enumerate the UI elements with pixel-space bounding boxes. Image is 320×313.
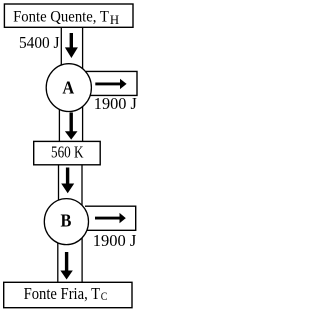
arrow from A to intermediate reservoir (65, 113, 78, 140)
svg-text:H: H (110, 13, 119, 27)
svg-text:5400 J: 5400 J (19, 33, 60, 52)
arrow into engine B (61, 168, 74, 194)
work output box B (85, 206, 136, 230)
cold reservoir box (4, 282, 132, 307)
intermediate reservoir box 560 K (34, 141, 101, 164)
engine A circle (46, 64, 91, 112)
channel 2 left wall (A to 560 K) (58, 100, 60, 141)
svg-text:560 K: 560 K (51, 143, 84, 162)
heat channel 1 right wall (82, 27, 84, 75)
arrow QH into engine A (65, 33, 78, 58)
arrow WB (work out of B) (95, 213, 126, 223)
svg-text:B: B (61, 211, 72, 231)
heat channel 1 left wall (60, 27, 62, 75)
channel 4 right wall (B to cold reservoir) (81, 235, 83, 282)
work output box A (86, 71, 137, 95)
channel 4 left wall (B to cold reservoir) (57, 235, 59, 282)
channel 2 right wall (A to 560 K) (82, 100, 84, 141)
hot reservoir box (4, 4, 133, 27)
channel 3 left wall (560 K to B) (58, 165, 60, 210)
engine B circle (44, 199, 88, 245)
svg-text:1900 J: 1900 J (94, 94, 137, 113)
svg-text:Fonte Fria, T: Fonte Fria, T (24, 284, 101, 303)
svg-text:Fonte Quente, T: Fonte Quente, T (13, 8, 109, 25)
arrow WA (work out of A) (95, 79, 126, 89)
svg-text:1900 J: 1900 J (93, 231, 137, 250)
arrow QC into cold reservoir (60, 252, 72, 280)
svg-text:C: C (101, 289, 108, 303)
channel 3 right wall (560 K to B) (81, 165, 83, 210)
svg-text:A: A (62, 78, 74, 98)
